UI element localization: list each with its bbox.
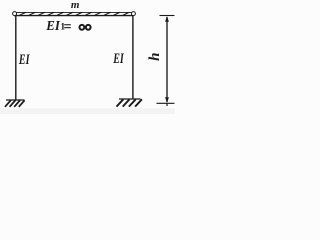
svg-text:EI: EI [18,52,30,68]
svg-text:EI: EI [113,51,125,67]
svg-text:m: m [71,0,80,11]
svg-text:EI: EI [45,18,60,33]
svg-text:h: h [147,53,163,61]
